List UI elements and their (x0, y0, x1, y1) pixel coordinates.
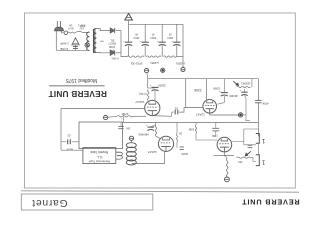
grid cap on lower bus (120, 123, 122, 127)
pilot lamp (85, 43, 89, 47)
rectifier diode D2 (110, 50, 115, 55)
wire pot to jack2 (251, 158, 256, 162)
output cable terminal (225, 177, 230, 182)
wire C3 to B+ bus (161, 46, 163, 57)
wire C4 to B+ bus (176, 46, 178, 57)
grid resistor 470K (117, 116, 133, 117)
pot wiper arrow (233, 81, 237, 84)
coupling capacitor V1-V2 (174, 110, 176, 115)
wire primary bottom (88, 49, 90, 51)
svg-text:RECT: RECT (108, 42, 116, 46)
wire filter cap C4 drop (176, 24, 178, 42)
grid leak resistor V2 (185, 79, 187, 108)
output level pot (237, 157, 251, 158)
wire D1 to junction (116, 30, 121, 32)
blocking cap right rail (257, 79, 259, 100)
svg-text:25/25: 25/25 (181, 152, 188, 156)
svg-text:REVERB UNIT: REVERB UNIT (48, 89, 106, 99)
wire 470K to V1 (133, 115, 146, 117)
AC plug P1 (56, 21, 58, 28)
cathode bypass capacitor 25/25 V1 (148, 87, 155, 89)
output jack J1 (256, 134, 259, 144)
wire V1 plate out (152, 115, 171, 118)
switch SW1 (75, 31, 88, 32)
wire coil bottom to V3 cathode (132, 151, 165, 163)
svg-text:Reverb Tank: Reverb Tank (90, 150, 108, 154)
wire secondary bottom tap (96, 52, 109, 54)
svg-text:220K: 220K (193, 88, 201, 92)
svg-text:(40/450): (40/450) (138, 133, 148, 137)
svg-text:(+265): (+265) (150, 61, 159, 65)
wire rectifier junction (121, 31, 127, 57)
triode V3 reverb driver (158, 136, 173, 151)
svg-text:600V: 600V (66, 147, 73, 151)
line bypass capacitor (73, 45, 78, 47)
input terminal J-in (104, 116, 108, 120)
output pot wiper arrow (246, 151, 251, 155)
svg-text:25/25: 25/25 (158, 83, 166, 87)
svg-text:40/450: 40/450 (229, 94, 238, 98)
reverb tank label box (83, 148, 116, 164)
grid wire V1 (long feed) (61, 107, 145, 109)
wire D2 to junction (116, 52, 121, 54)
coupling cap pot to cable (241, 91, 247, 93)
svg-text:BUS: BUS (68, 27, 74, 31)
fuse element (68, 32, 75, 33)
triode V1 (145, 100, 160, 115)
svg-text:+: + (171, 39, 173, 43)
cathode bypass cap V3 (180, 146, 184, 148)
title strip rule (21, 191, 299, 192)
plate feed V2 (206, 79, 208, 100)
svg-text:450V: 450V (150, 36, 156, 40)
wire plate supply bus (148, 78, 259, 80)
svg-text:2 AMP: 2 AMP (60, 41, 69, 45)
chassis ground arrow (72, 38, 79, 45)
svg-text:O.L.: O.L. (96, 155, 102, 159)
decoupling cap V3 (155, 123, 157, 126)
output jack J2 (256, 155, 259, 166)
wire terminal1 to plate bus (146, 73, 149, 79)
wire terminal to pot rail (243, 114, 246, 116)
svg-text:1M: 1M (126, 127, 131, 131)
wire secondary top tap (96, 29, 109, 31)
svg-text:Hammond Type: Hammond Type (88, 159, 109, 163)
wire coupling cap to V2 grid (179, 108, 203, 113)
wire AC bottom rail (56, 49, 89, 51)
rectifier diode D1 (110, 28, 115, 33)
B+ dropping resistor R-A (127, 56, 144, 57)
wire secondary centre tap (100, 40, 103, 42)
svg-text:PIV: PIV (110, 48, 115, 52)
wire B+ feed drop (182, 24, 184, 67)
filter capacitor C3 (159, 41, 166, 43)
B+ dropping resistor R-C (163, 56, 176, 57)
svg-text:REVERB UNIT: REVERB UNIT (241, 197, 299, 206)
filter capacitor C4 (173, 41, 180, 43)
wire C1 to B+ bus (128, 46, 130, 57)
wire V2 out to terminal (210, 113, 239, 115)
output cable wavy (227, 158, 228, 177)
wire plug right leg to fuse (62, 31, 64, 33)
svg-text:+: + (157, 39, 159, 43)
svg-text:12AX7: 12AX7 (147, 150, 156, 154)
wire PSU ground bus (129, 23, 183, 25)
wire cathode leads into V1 (154, 96, 156, 101)
B+ terminal 1 (145, 69, 149, 73)
B+ terminal 3 (181, 67, 185, 71)
svg-text:+: + (240, 89, 242, 93)
depth pot 250K (237, 86, 251, 87)
wire input to grid resistor (108, 115, 117, 118)
coupling cap V4 (215, 123, 217, 128)
triode V2 (203, 100, 217, 114)
fuse holder F1 (64, 31, 68, 35)
svg-text:Garnet: Garnet (32, 197, 68, 208)
cathode resistor V1 (148, 90, 149, 101)
svg-text:(.02): (.02) (212, 134, 218, 138)
svg-text:A-001: A-001 (111, 57, 119, 61)
coupling cap to tank .02 (62, 141, 67, 143)
svg-text:470K: 470K (262, 101, 269, 105)
wire lower bus (123, 122, 258, 124)
triode V4 recovery (217, 137, 232, 152)
decoupling cap V2 drop (223, 79, 225, 93)
tank output connector (116, 152, 123, 156)
title underline (49, 85, 104, 87)
svg-text:12AX7: 12AX7 (195, 112, 204, 116)
svg-text:(250K): (250K) (241, 81, 250, 85)
reverb driver coil (131, 140, 133, 142)
reverb tank outer box (79, 122, 123, 149)
svg-text:450V: 450V (133, 36, 139, 40)
B+ terminal 2 (161, 68, 165, 72)
svg-text:12AX7: 12AX7 (135, 100, 144, 104)
wire V4 plate to pot (224, 152, 234, 156)
svg-text:1M: 1M (238, 160, 243, 164)
wire primary top (88, 31, 89, 33)
wire lamp to rail (86, 48, 88, 51)
svg-text:6.3V: 6.3V (80, 24, 86, 28)
wire V4 right to jack rail (232, 129, 259, 142)
svg-text:+: + (140, 39, 142, 43)
plate resistor V3 (155, 125, 156, 136)
capacitor between jacks (248, 144, 253, 146)
svg-text:.02: .02 (174, 107, 178, 111)
reverb send terminal (238, 113, 242, 117)
driver coil terminal (129, 136, 133, 140)
wire lower tank link (61, 149, 83, 151)
svg-text:(+250): (+250) (176, 61, 185, 65)
svg-text:+: + (219, 89, 221, 93)
capacitor 40/450 V2 (221, 92, 228, 94)
wire drop to lower bus (122, 116, 124, 122)
ground symbol on bus (125, 13, 133, 20)
Garnet logo box (21, 194, 153, 210)
svg-text:+: + (150, 83, 152, 87)
svg-text:Modified 1975: Modified 1975 (66, 77, 98, 83)
svg-text:+: + (146, 123, 148, 127)
wire plug left leg down (55, 31, 57, 51)
svg-text:470K: 470K (121, 112, 128, 116)
power transformer T1 secondary (93, 29, 96, 53)
schematic border frame (25, 13, 296, 188)
grid resistor V4 (195, 123, 197, 126)
wire filter cap C1 drop (128, 24, 130, 42)
power transformer T1 primary (87, 32, 90, 51)
wire rail to jack2 (257, 143, 259, 155)
wire filter cap C2 drop (144, 24, 146, 42)
svg-text:+: + (123, 39, 125, 43)
transformer core (93, 29, 95, 53)
wire filter cap C3 drop (161, 24, 163, 42)
cathode resistor V3 1K (176, 123, 178, 134)
svg-text:(2.2K): (2.2K) (139, 92, 147, 96)
wire V1 grid feed corner down (60, 108, 62, 150)
filter capacitor C1 (125, 41, 132, 43)
svg-text:1K: 1K (178, 131, 182, 135)
wire bus corner down V1 area (147, 79, 149, 88)
filter capacitor C2 (142, 41, 149, 43)
B+ dropping resistor R-B (146, 56, 161, 57)
wire B+ bus end (176, 56, 183, 58)
wire C2 to B+ bus (144, 46, 146, 57)
svg-text:.02: .02 (67, 134, 71, 138)
svg-text:10M: 10M (188, 127, 194, 131)
svg-text:(PS1-30): (PS1-30) (131, 61, 143, 65)
